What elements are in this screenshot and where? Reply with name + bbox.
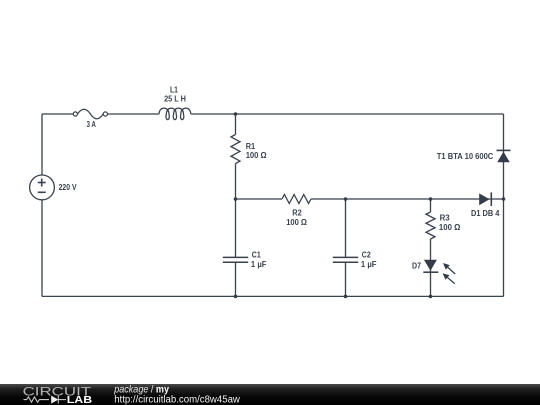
svg-text:D1 DB 4: D1 DB 4	[471, 209, 500, 218]
svg-text:C1: C1	[252, 251, 261, 260]
svg-text:T1 BTA 10 600C: T1 BTA 10 600C	[437, 152, 494, 161]
svg-text:100 Ω: 100 Ω	[439, 223, 461, 232]
svg-text:3 A: 3 A	[86, 120, 96, 129]
svg-text:L1: L1	[170, 86, 179, 95]
svg-text:220 V: 220 V	[59, 183, 78, 192]
svg-text:100 Ω: 100 Ω	[246, 151, 267, 160]
svg-text:R1: R1	[246, 142, 256, 151]
svg-text:25 L H: 25 L H	[164, 94, 186, 103]
svg-text:1 µF: 1 µF	[361, 260, 377, 269]
svg-text:LAB: LAB	[67, 395, 92, 405]
svg-text:R2: R2	[292, 209, 302, 218]
svg-text:http://circuitlab.com/c8w45aw: http://circuitlab.com/c8w45aw	[114, 394, 240, 405]
svg-text:R3: R3	[440, 214, 451, 223]
svg-text:1 µF: 1 µF	[251, 260, 267, 269]
svg-text:D7: D7	[412, 262, 421, 271]
svg-text:100 Ω: 100 Ω	[286, 218, 307, 227]
svg-text:C2: C2	[362, 251, 371, 260]
